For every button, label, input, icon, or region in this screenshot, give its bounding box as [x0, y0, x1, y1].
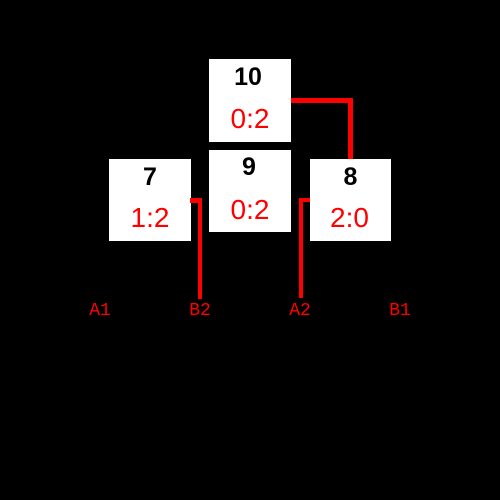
- score 0:2 (box 9): [209, 196, 291, 224]
- score 1:2 (box 7): [109, 204, 191, 232]
- node label A2: [270, 302, 330, 320]
- score 2:0 (box 8): [309, 204, 390, 232]
- score 0:2 (box 10): [209, 105, 291, 133]
- node label B1: [370, 302, 430, 320]
- wire box10 to box8: horizontal segment: [291, 98, 353, 103]
- seed number 9: [208, 155, 290, 180]
- match box 10: [209, 59, 291, 142]
- seed number 7: [109, 165, 191, 190]
- wire box7 to B2: horizontal stub: [190, 198, 202, 203]
- match box 9: [209, 150, 291, 232]
- node label A1: [70, 302, 130, 320]
- match box 8: [310, 159, 391, 241]
- wire box7 to B2: vertical segment: [198, 198, 203, 299]
- wire box10 to box8: vertical segment: [348, 98, 353, 159]
- node label B2: [170, 302, 230, 320]
- wire box8 to A2: vertical segment: [299, 198, 304, 299]
- wire box8 to A2: horizontal stub: [299, 198, 311, 203]
- seed number 8: [310, 165, 391, 190]
- seed number 10: [207, 65, 289, 90]
- match box 7: [109, 159, 191, 241]
